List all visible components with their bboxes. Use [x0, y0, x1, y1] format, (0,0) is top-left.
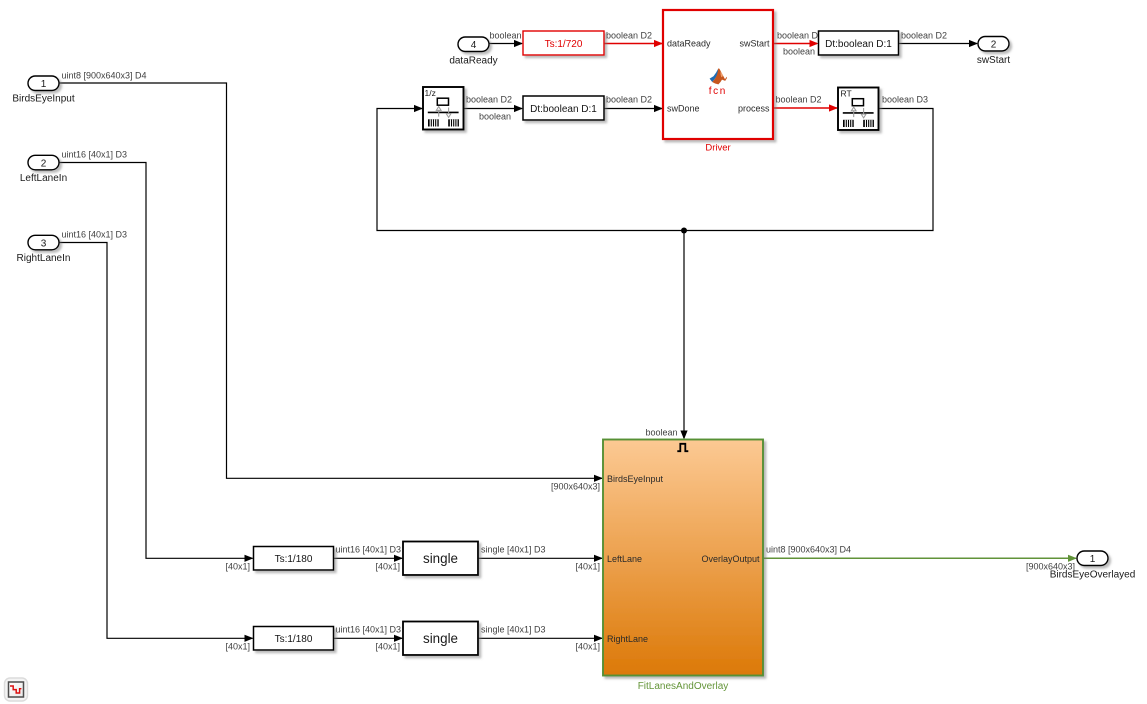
block Ts:1/180 row1: [254, 547, 334, 571]
svg-text:Dt:boolean D:1: Dt:boolean D:1: [530, 104, 597, 115]
junction node: [681, 228, 687, 234]
wire single row1 to subsystem LeftLane: [478, 545, 603, 572]
wire single row2 to subsystem RightLane: [478, 625, 603, 652]
outport 1 BirdsEyeOverlayed: [1050, 551, 1136, 581]
svg-text:LeftLaneIn: LeftLaneIn: [20, 173, 67, 184]
svg-text:boolean D2: boolean D2: [901, 31, 947, 41]
wire Driver.process to RT (red): [773, 95, 838, 112]
svg-text:RT: RT: [841, 88, 852, 98]
inport 4 dataReady: [449, 37, 497, 67]
wire Ts:1/720 to Driver.dataReady (red): [604, 31, 663, 48]
svg-text:boolean D2: boolean D2: [606, 31, 652, 41]
trigger symbol: [677, 444, 688, 451]
svg-text:boolean: boolean: [645, 428, 677, 438]
svg-text:single: single: [423, 631, 458, 646]
subsystem FitLanesAndOverlay: [603, 440, 763, 676]
wire inport3 RightLaneIn to Ts:1/180 row2: [59, 230, 254, 652]
block single row1: [403, 542, 478, 576]
svg-text:Ts:1/180: Ts:1/180: [275, 634, 313, 645]
wire Dt:boolean to outport swStart: [899, 31, 979, 48]
svg-text:1: 1: [41, 79, 47, 90]
block Driver (MATLAB Function, red): [663, 10, 773, 139]
svg-text:4: 4: [471, 40, 477, 51]
svg-text:uint16 [40x1] D3: uint16 [40x1] D3: [336, 625, 402, 635]
svg-text:[40x1]: [40x1]: [375, 562, 400, 572]
svg-text:uint16 [40x1] D3: uint16 [40x1] D3: [336, 545, 402, 555]
svg-text:[40x1]: [40x1]: [375, 642, 400, 652]
svg-text:uint8 [900x640x3] D4: uint8 [900x640x3] D4: [766, 545, 851, 555]
svg-text:boolean: boolean: [783, 47, 815, 57]
block Ts:1/180 row2: [254, 627, 334, 651]
block Dt:boolean D:1 (right): [819, 31, 899, 55]
svg-text:swStart: swStart: [739, 39, 770, 49]
outport 2 swStart: [977, 37, 1011, 67]
block Dt:boolean D:1 (left): [523, 96, 604, 120]
svg-text:BirdsEyeInput: BirdsEyeInput: [607, 474, 664, 484]
block rate transition 1/z: [423, 87, 464, 130]
svg-text:boolean D2: boolean D2: [606, 95, 652, 105]
inport 2 LeftLaneIn: [20, 155, 67, 184]
svg-text:1/z: 1/z: [425, 88, 436, 98]
svg-text:swDone: swDone: [667, 104, 700, 114]
svg-text:1: 1: [1090, 554, 1096, 565]
wire subsystem OverlayOutput to outport BirdsEyeOverlayed (green): [763, 545, 1077, 572]
svg-text:boolean D2: boolean D2: [776, 95, 822, 105]
svg-text:swStart: swStart: [977, 55, 1011, 66]
svg-text:boolean D3: boolean D3: [882, 95, 928, 105]
svg-text:LeftLane: LeftLane: [607, 554, 642, 564]
svg-text:FitLanesAndOverlay: FitLanesAndOverlay: [638, 681, 729, 692]
svg-text:[40x1]: [40x1]: [225, 642, 250, 652]
wire Ts:1/180 row2 to single row2: [334, 625, 404, 652]
svg-text:uint16 [40x1] D3: uint16 [40x1] D3: [62, 150, 128, 160]
wire Driver.swStart to Dt:boolean (red): [773, 31, 823, 57]
wire port4 to Ts:1/720: [489, 31, 523, 48]
block rate transition RT: [838, 88, 879, 131]
svg-text:3: 3: [41, 238, 47, 249]
wire RT output loop back to 1/z: [377, 95, 933, 231]
svg-text:dataReady: dataReady: [449, 56, 497, 67]
svg-text:boolean: boolean: [479, 112, 511, 122]
wire Ts:1/180 row1 to single row1: [334, 545, 404, 572]
wire inport1 BirdsEyeInput to subsystem: [59, 71, 603, 492]
svg-text:OverlayOutput: OverlayOutput: [701, 554, 760, 564]
wire inport2 LeftLaneIn to Ts:1/180: [59, 150, 254, 572]
svg-text:dataReady: dataReady: [667, 39, 711, 49]
svg-text:uint8 [900x640x3] D4: uint8 [900x640x3] D4: [62, 71, 147, 81]
block Ts:1/720 (red sample time): [523, 31, 604, 55]
svg-text:[40x1]: [40x1]: [575, 642, 600, 652]
svg-text:single [40x1] D3: single [40x1] D3: [481, 545, 546, 555]
MATLAB membrane logo: [710, 68, 727, 84]
svg-text:BirdsEyeOverlayed: BirdsEyeOverlayed: [1050, 570, 1136, 581]
svg-text:Ts:1/180: Ts:1/180: [275, 554, 313, 565]
wire junction to trigger port of FitLanesAndOverlay: [645, 231, 687, 440]
svg-text:boolean D2: boolean D2: [777, 31, 823, 41]
svg-text:process: process: [738, 104, 770, 114]
inport 1 BirdsEyeInput: [12, 76, 74, 105]
svg-text:Ts:1/720: Ts:1/720: [545, 39, 583, 50]
svg-text:RightLane: RightLane: [607, 634, 648, 644]
svg-text:[900x640x3]: [900x640x3]: [551, 482, 600, 492]
svg-text:single: single: [423, 551, 458, 566]
svg-text:RightLaneIn: RightLaneIn: [17, 253, 71, 264]
svg-text:2: 2: [41, 158, 47, 169]
badge hidden-content icon bottom-left: [5, 678, 28, 701]
svg-text:boolean D2: boolean D2: [466, 95, 512, 105]
svg-text:fcn: fcn: [709, 86, 727, 97]
svg-text:Dt:boolean D:1: Dt:boolean D:1: [825, 39, 892, 50]
svg-text:uint16 [40x1] D3: uint16 [40x1] D3: [62, 230, 128, 240]
svg-text:[40x1]: [40x1]: [575, 562, 600, 572]
block single row2: [403, 622, 478, 656]
svg-text:single [40x1] D3: single [40x1] D3: [481, 625, 546, 635]
svg-text:boolean: boolean: [489, 31, 521, 41]
inport 3 RightLaneIn: [17, 235, 71, 264]
wire 1/z to Dt:boolean left: [464, 95, 524, 122]
wire Dt:boolean left to Driver.swDone: [604, 95, 663, 113]
svg-text:BirdsEyeInput: BirdsEyeInput: [12, 94, 74, 105]
svg-text:Driver: Driver: [705, 143, 730, 154]
svg-text:[40x1]: [40x1]: [225, 562, 250, 572]
svg-text:2: 2: [991, 39, 997, 50]
